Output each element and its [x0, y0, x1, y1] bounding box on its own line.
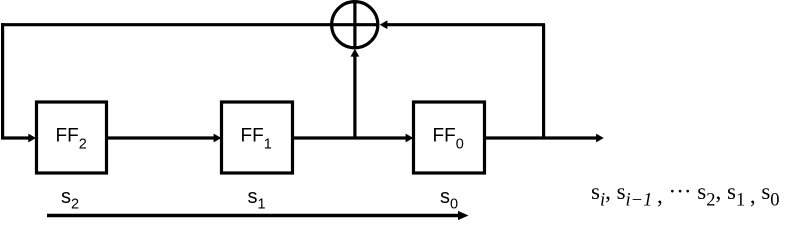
- wire: left feedback vertical: [1, 23, 4, 138]
- wire: input into FF2: [1, 136, 29, 139]
- flip-flop FF0: [414, 102, 485, 173]
- svg-text:s0: s0: [440, 186, 458, 213]
- svg-text:s1: s1: [248, 186, 266, 213]
- wire: junction up to XOR: [353, 56, 356, 138]
- arrowhead left into XOR: [380, 20, 388, 29]
- flip-flop FF2: [37, 102, 107, 173]
- XOR plus vertical: [353, 2, 356, 47]
- XOR gate circle: [332, 2, 378, 48]
- bottom arrowhead: [458, 211, 469, 220]
- svg-text:s2: s2: [61, 186, 79, 213]
- arrowhead output: [596, 134, 604, 143]
- arrowhead up into XOR: [351, 49, 360, 57]
- wire FF1 to FF0: [293, 136, 406, 139]
- svg-text:si, si−1 , ··· s2, s1 , s0: si, si−1 , ··· s2, s1 , s0: [591, 179, 780, 211]
- wire: right feedback vertical: [542, 25, 545, 139]
- wire FF0 output: [486, 136, 597, 139]
- arrowhead into FF2: [28, 134, 36, 143]
- arrowhead into FF1: [214, 134, 222, 143]
- flip-flop FF1: [222, 102, 293, 173]
- wire: top-right feedback horizontal: [387, 23, 545, 26]
- bottom arrow line: [47, 214, 459, 217]
- arrowhead into FF0: [406, 134, 414, 143]
- wire FF2 to FF1: [107, 136, 215, 139]
- wire: top-left feedback horizontal (into XOR left, through circle): [1, 23, 377, 26]
